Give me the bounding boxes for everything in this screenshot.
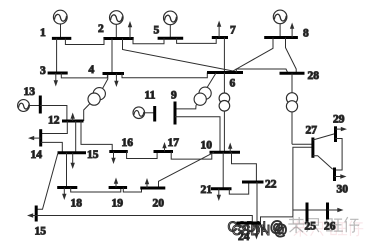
bus 12 [62,120,84,123]
bus 21 [211,187,232,190]
gen arrow bus 7 [217,21,221,38]
generator G8 [273,10,287,37]
svg-text:2: 2 [98,23,104,35]
svg-text:7: 7 [230,25,236,37]
load arrow bus 30 [335,174,347,178]
wire transformer to bus 27 [292,143,313,145]
bus 30 [333,168,336,182]
bus 23 labeled 15 [35,206,38,222]
wire 18-19 [71,188,121,193]
svg-text:24: 24 [238,231,250,243]
wire 2-6 [123,39,241,73]
wire 12-16 [81,121,112,152]
load arrow bus 29 [336,127,348,131]
bus 2 [103,37,133,40]
load arrow bus 19 [114,178,118,188]
bus 25 [306,203,309,222]
svg-text:28: 28 [308,70,320,82]
load arrow bus 15 [71,153,75,169]
wire 10-22 [232,152,257,182]
load arrow bus 4 [114,74,118,88]
gen arrow bus 2 [128,21,132,39]
bus 8 [264,36,298,39]
transformer T4-12 [88,88,105,106]
load arrow bus 3 [54,73,58,87]
wire 9-10 [175,117,220,153]
generator G2 [110,11,124,39]
svg-text:25: 25 [305,221,317,233]
bus 15 [58,151,87,154]
load arrow bus 12 up [71,113,75,122]
svg-text:10: 10 [201,140,213,152]
bus 14 [39,129,42,146]
wire 1-3 [56,39,58,74]
wire 7-6 [223,38,225,73]
bus 24 [237,222,262,225]
bus 5 [158,37,184,40]
bus 13 [39,96,42,114]
bus 11 [153,106,156,122]
wire 10-20 [159,152,215,188]
svg-text:16: 16 [122,137,134,149]
svg-text:26: 26 [324,221,336,233]
bus 6 [207,71,243,74]
wire 13-12 [40,106,67,122]
svg-text:29: 29 [333,114,345,126]
generator G1 [53,10,67,37]
wire 12-14 [41,121,68,134]
transformer T28-27 [286,73,297,144]
transformer T6-9 [194,87,211,105]
wire 27-30 [313,156,333,170]
svg-text:17: 17 [168,137,180,149]
generator G13 [18,100,41,112]
bus 9 [174,102,177,125]
svg-text:4: 4 [89,64,95,76]
svg-text:3: 3 [40,65,46,77]
load arrow bus 16 [111,152,115,165]
wire 2-4 [111,39,113,74]
svg-text:1: 1 [40,27,46,39]
svg-text:8: 8 [303,28,309,40]
load arrow bus 24 [254,223,258,240]
svg-text:15: 15 [35,226,47,238]
wire 16-17 [127,152,158,159]
wire 8-6 [233,38,273,72]
svg-text:21: 21 [201,184,213,196]
svg-text:12: 12 [48,115,60,127]
transformer T4-12 wire [84,75,108,122]
bus 4 [103,72,125,75]
bus 18 [57,186,77,189]
svg-text:15: 15 [87,149,99,161]
generator G5 [164,11,178,38]
svg-text:19: 19 [112,198,124,210]
wire 1-2 [65,39,104,45]
svg-text:6: 6 [230,78,236,90]
wire 23-24 [36,216,252,224]
bus 3 [48,72,68,75]
load arrow bus 17 [162,142,166,152]
wire 15-18 [66,153,68,188]
svg-text:5: 5 [154,25,160,37]
wire 27-25 [293,147,313,217]
svg-text:27: 27 [306,125,318,137]
wire 4-6 [122,73,207,78]
watermark pink copy [232,221,364,239]
bus 17 [154,150,174,153]
bus 26 [326,203,329,220]
bus 16 [109,150,128,153]
wire 2-5 [133,38,164,44]
svg-text:9: 9 [171,90,177,102]
svg-text:30: 30 [337,184,349,196]
wire 17-10 [171,152,212,160]
load arrow bus 26 [328,208,344,212]
wire 22-24 [256,182,258,223]
load arrow bus 18 [62,188,66,201]
bus 28 [280,72,305,75]
watermark gray copy [228,217,360,235]
load arrow bus 21 [217,189,221,201]
wire 10-21 [222,152,224,188]
wire 25-26 [293,209,328,211]
load arrow bus 10 [228,143,232,153]
wire 3-4 [61,73,107,78]
svg-text:13: 13 [24,86,36,98]
wire 14-15 [41,142,63,152]
bus 20 [140,187,165,190]
bus 29 [334,126,337,142]
wire 15-23 [36,153,58,210]
wire 19-20 [123,188,141,193]
generator G11 [133,107,155,119]
bus 10 [210,151,241,154]
gen arrow bus 8 [290,23,294,38]
load arrow bus 20 [145,178,149,188]
bus 1 [52,37,71,40]
load arrow bus 14 [28,136,41,140]
svg-text:20: 20 [153,198,165,210]
bus 22 [242,181,264,184]
wire 8-28 [286,38,297,74]
bus 7 [212,36,228,39]
bus 19 [109,186,128,189]
svg-text:11: 11 [145,90,156,102]
wire 21-22 [229,182,248,194]
bus 27 [311,138,314,158]
wire 27-29 [313,134,336,141]
wire 24-25 [261,217,293,223]
wire 12-15 [75,121,77,153]
transformer T6-10 [219,73,230,153]
svg-text:14: 14 [31,149,43,161]
svg-text:22: 22 [265,179,277,191]
wire 29-30 [335,139,343,171]
wire 5-7 [177,38,217,44]
svg-text:18: 18 [71,198,83,210]
wire 6-28 [236,69,288,73]
load arrow bus 23 [27,213,36,217]
transformer T6-9 wire [175,73,216,109]
